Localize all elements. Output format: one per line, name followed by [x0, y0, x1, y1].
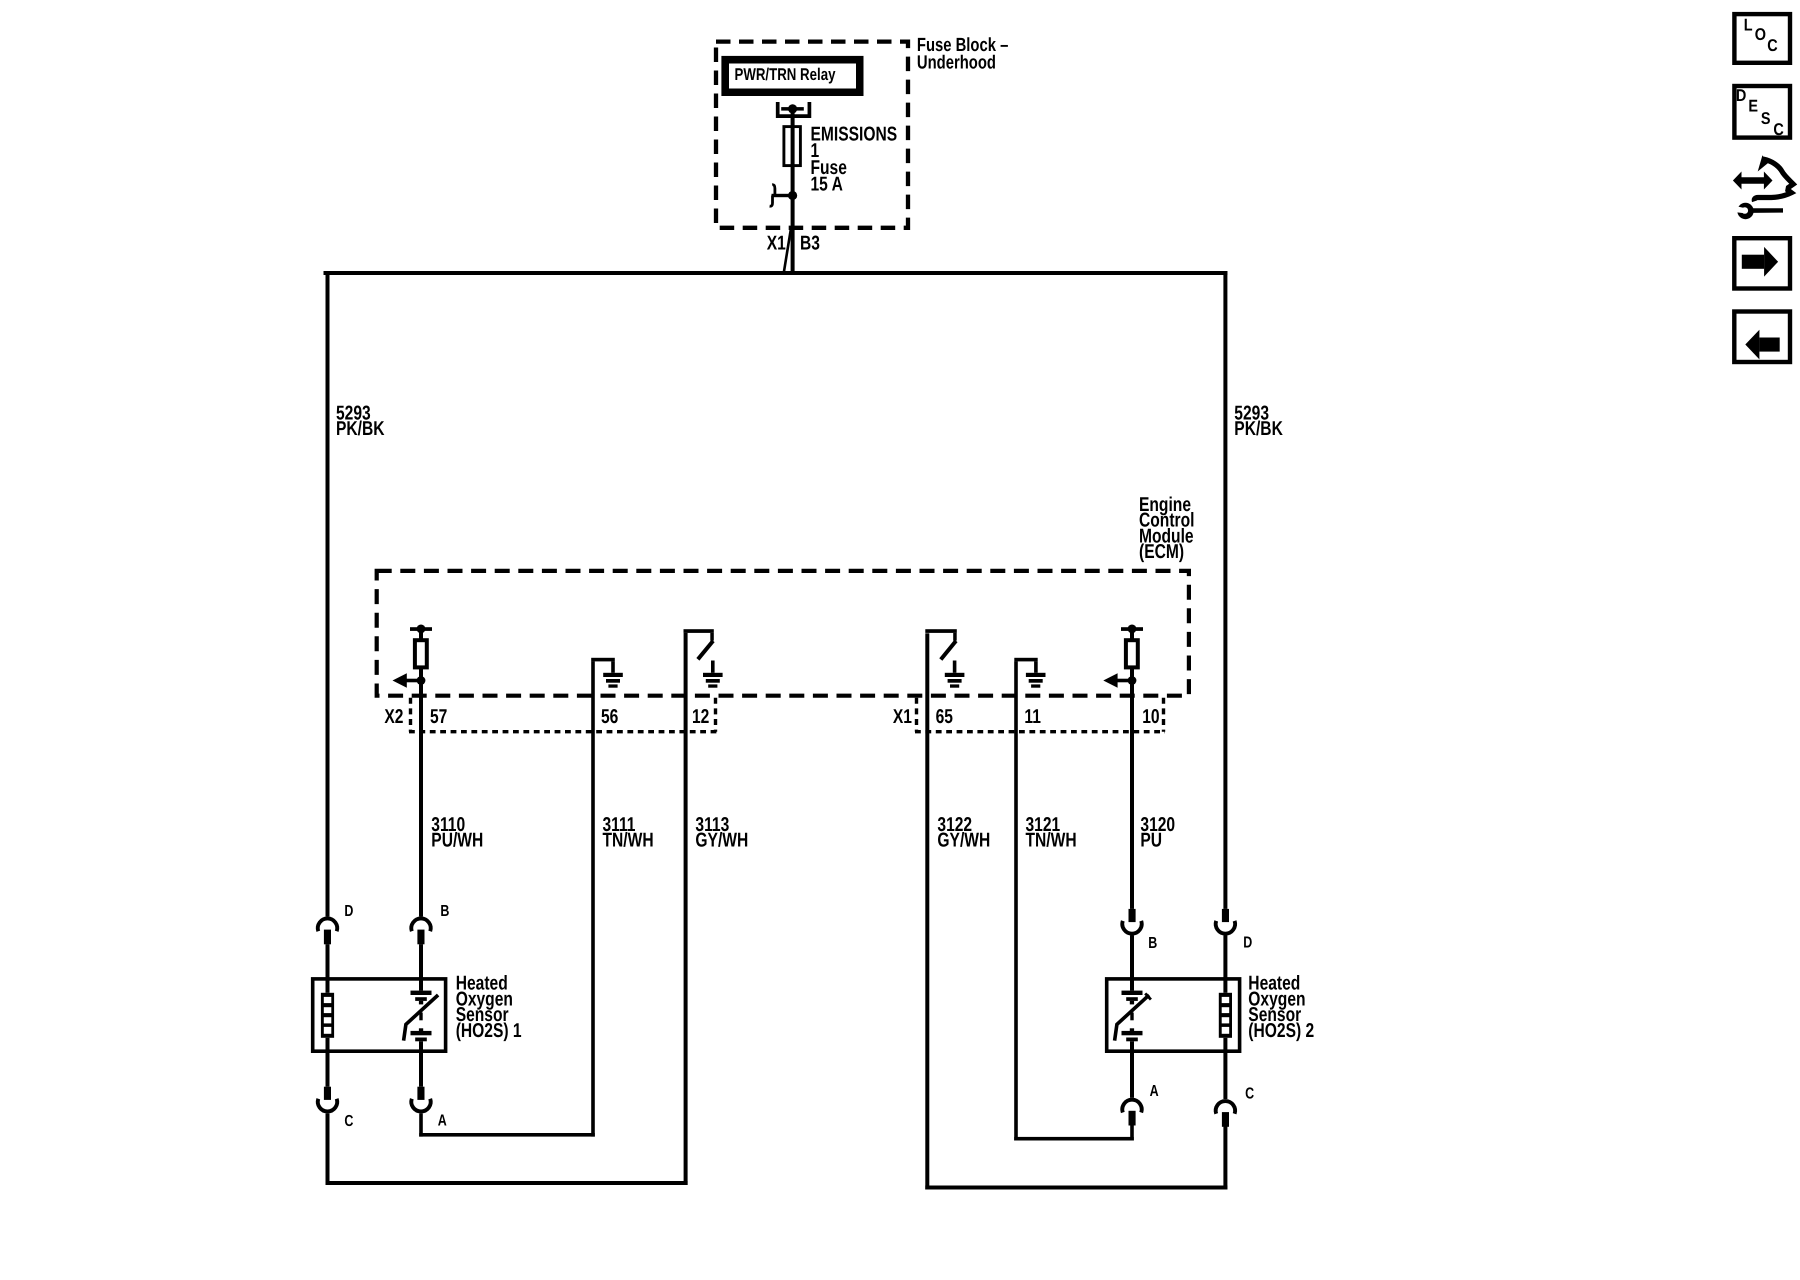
- wire 3121 TN/WH pin 11 down: [1014, 661, 1076, 1140]
- svg-text:PWR/TRN Relay: PWR/TRN Relay: [735, 65, 836, 84]
- label Engine Control Module (ECM): [1139, 494, 1194, 563]
- relay output terminal bracket: [778, 102, 810, 116]
- ECM connector X2 pin strip: [384, 698, 717, 732]
- svg-text:PU: PU: [1140, 829, 1162, 851]
- terminal hook connector below fuse: [770, 185, 798, 207]
- svg-text:15 A: 15 A: [811, 174, 843, 196]
- svg-text:S: S: [1761, 109, 1771, 128]
- connector B at HO2S2: [1122, 909, 1157, 952]
- icon DESC box: [1734, 86, 1790, 139]
- connector B at HO2S1: [411, 903, 449, 944]
- svg-text:(HO2S) 1: (HO2S) 1: [456, 1020, 522, 1042]
- ground symbol at ECM pin 56: [591, 658, 623, 688]
- wire 3113 GY/WH pin 12 down: [684, 633, 749, 1185]
- svg-text:PK/BK: PK/BK: [336, 418, 385, 440]
- icon diagnostic tools (arrows and wrench): [1733, 155, 1793, 219]
- svg-text:X1: X1: [767, 233, 786, 255]
- wire 3110 PU/WH pin 57 to HO2S1 B: [419, 667, 483, 916]
- ground symbol at ECM pin 11: [1014, 658, 1045, 688]
- wire B to HO2S1 box: [419, 944, 423, 978]
- heater element HO2S1: [321, 980, 334, 1051]
- svg-text:Underhood: Underhood: [917, 52, 996, 73]
- svg-text:EMISSIONS: EMISSIONS: [811, 123, 898, 145]
- label Heated Oxygen Sensor (HO2S) 1: [456, 973, 522, 1042]
- ECM dashed box: [377, 571, 1189, 696]
- svg-text:O: O: [1755, 25, 1766, 44]
- fuse EMISSIONS 1 Fuse 15 A: [784, 123, 897, 195]
- svg-text:L: L: [1744, 16, 1753, 35]
- bottom rail right (heater ground loop): [925, 1186, 1227, 1190]
- svg-text:10: 10: [1142, 706, 1159, 728]
- svg-text:C: C: [344, 1113, 353, 1130]
- svg-text:57: 57: [430, 706, 447, 728]
- wire A to pin 56 column: [419, 1113, 595, 1136]
- svg-text:C: C: [1767, 36, 1777, 55]
- svg-text:TN/WH: TN/WH: [1026, 829, 1077, 851]
- connector D at HO2S1: [318, 903, 354, 944]
- svg-text:A: A: [1150, 1083, 1159, 1100]
- wire D to HO2S2 box: [1223, 935, 1227, 978]
- wire A to pin 11 column: [1014, 1126, 1134, 1141]
- relay PWR/TRN Relay: [721, 56, 863, 96]
- connector C at HO2S1: [318, 1051, 354, 1130]
- wire 3111 TN/WH pin 56 down: [591, 661, 653, 1136]
- heater element HO2S2: [1219, 980, 1232, 1051]
- HO2S1 box: [313, 979, 446, 1051]
- svg-text:A: A: [438, 1112, 447, 1129]
- svg-text:GY/WH: GY/WH: [695, 829, 748, 851]
- icon next arrow box: [1734, 238, 1790, 288]
- wire 3122 GY/WH pin 65 down: [925, 633, 990, 1189]
- ECM connector X1 pin strip: [893, 698, 1165, 732]
- oxygen sensor cell HO2S1: [404, 980, 439, 1051]
- heater driver resistor at ECM pin 10: [1121, 625, 1143, 681]
- connector C at HO2S2: [1216, 1051, 1255, 1127]
- svg-text:E: E: [1748, 97, 1758, 116]
- HO2S2 box: [1107, 979, 1240, 1051]
- svg-text:56: 56: [601, 706, 618, 728]
- svg-text:D: D: [1736, 86, 1746, 105]
- label Heated Oxygen Sensor (HO2S) 2: [1248, 973, 1314, 1042]
- icon back arrow box: [1734, 312, 1790, 363]
- switch to ground at ECM pin 12: [684, 629, 723, 688]
- svg-text:D: D: [344, 903, 353, 920]
- wire top rail: [324, 271, 1228, 275]
- svg-text:GY/WH: GY/WH: [937, 829, 990, 851]
- connector D at HO2S2: [1216, 909, 1253, 952]
- svg-text:(HO2S) 2: (HO2S) 2: [1248, 1020, 1314, 1042]
- wire 5293 PK/BK right: [1223, 271, 1283, 909]
- driver output arrow at pin 10: [1103, 673, 1136, 687]
- connector X1 B3 pass-through slash and labels: [767, 230, 820, 273]
- connector A at HO2S1: [411, 1051, 447, 1129]
- svg-text:(ECM): (ECM): [1139, 541, 1184, 563]
- svg-text:TN/WH: TN/WH: [603, 829, 654, 851]
- svg-text:C: C: [1245, 1085, 1254, 1102]
- svg-text:12: 12: [692, 706, 709, 728]
- switch to ground at ECM pin 65: [925, 629, 964, 688]
- svg-text:11: 11: [1024, 706, 1041, 728]
- heater driver resistor at ECM pin 57: [410, 625, 432, 681]
- svg-text:B3: B3: [800, 233, 820, 255]
- wire C down to bottom rail: [326, 1113, 330, 1185]
- wire 3120 PU pin 10 to HO2S2 B: [1130, 667, 1175, 909]
- wire B to HO2S2 box: [1130, 935, 1134, 978]
- svg-text:X1: X1: [893, 706, 912, 728]
- bottom rail left (heater ground loop): [326, 1181, 688, 1185]
- svg-text:PU/WH: PU/WH: [431, 829, 483, 851]
- svg-text:X2: X2: [384, 706, 403, 728]
- icon LOC box: [1734, 14, 1790, 63]
- wire D to HO2S1 box: [326, 944, 330, 978]
- svg-text:65: 65: [936, 706, 953, 728]
- svg-text:C: C: [1773, 120, 1783, 139]
- oxygen sensor cell HO2S2: [1115, 980, 1151, 1051]
- svg-text:PK/BK: PK/BK: [1234, 418, 1283, 440]
- fuse block underhood (dashed box): [716, 42, 908, 228]
- wire from relay through fuse to rail: [791, 109, 795, 273]
- label: Fuse Block - Underhood: [917, 35, 1008, 74]
- connector A at HO2S2: [1122, 1051, 1159, 1126]
- driver output arrow at pin 57: [393, 673, 426, 687]
- svg-text:D: D: [1243, 935, 1252, 952]
- svg-text:B: B: [440, 903, 449, 920]
- wire C down to bottom right rail: [1223, 1127, 1227, 1190]
- wire 5293 PK/BK left: [326, 271, 385, 917]
- svg-text:B: B: [1148, 935, 1157, 952]
